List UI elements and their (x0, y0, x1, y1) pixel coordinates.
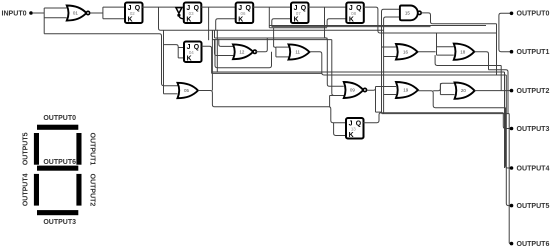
or-gate 18 (454, 44, 475, 60)
jk-flip-flop U06 (236, 3, 254, 24)
svg-text:20: 20 (461, 88, 467, 93)
svg-text:03: 03 (189, 11, 194, 16)
wire to OR18 input A (437, 46, 454, 48)
wire riser to OR05 input B (163, 30, 165, 94)
node OUTPUT0 terminal (510, 12, 514, 16)
jk-flip-flop U02 (125, 3, 143, 24)
wire OR19 input bracket (375, 87, 377, 113)
label 7seg OUTPUT5 (22, 132, 29, 165)
wire to NOR12 input A (219, 39, 234, 46)
wire OR05 input B stub (164, 93, 178, 95)
wire OR20 input bracket (433, 83, 454, 91)
label INPUT0 (2, 10, 27, 17)
wire to OR11 input A (276, 46, 289, 48)
wire mid channel bus A (212, 71, 505, 73)
wire FF02 Q to FF03 (142, 6, 184, 8)
label OUTPUT2 (517, 88, 550, 95)
wire branch at OR18 lower (435, 55, 501, 65)
svg-text:01: 01 (73, 11, 79, 16)
wire OR20 bracket vertical (439, 83, 441, 94)
svg-text:OUTPUT6: OUTPUT6 (517, 241, 550, 248)
svg-text:OUTPUT0: OUTPUT0 (43, 115, 76, 122)
svg-text:K: K (186, 16, 191, 23)
svg-text:OUTPUT6: OUTPUT6 (43, 159, 76, 166)
wire FF08 Q down to channel (364, 7, 497, 33)
wire to OR19 input A (376, 86, 397, 88)
node OUTPUT2 terminal (510, 89, 514, 93)
wire FF04 Q to riser (202, 46, 212, 73)
svg-text:12: 12 (239, 49, 245, 54)
7-segment upper-left bar (OUTPUT5) (34, 133, 39, 165)
svg-text:06: 06 (241, 11, 246, 16)
svg-text:OUTPUT5: OUTPUT5 (517, 203, 550, 210)
wire OR18 output down (475, 52, 489, 70)
wire FF06 Q riser (268, 7, 270, 28)
wire channel bus D (215, 37, 328, 39)
svg-text:OUTPUT3: OUTPUT3 (517, 126, 550, 133)
wire OR05 output long route to FF13 J (198, 91, 346, 123)
7-segment lower-left bar (OUTPUT4) (34, 174, 39, 206)
wire OUTPUT4 riser b (504, 72, 506, 168)
svg-text:09: 09 (350, 88, 356, 93)
svg-text:K: K (294, 16, 299, 23)
wire channel riser a (214, 30, 216, 38)
wire FF03 Q riser (208, 7, 210, 40)
svg-text:07: 07 (296, 11, 301, 16)
wire OUTPUT0 riser and stub (499, 13, 512, 51)
wire OUTPUT5 riser (506, 75, 511, 206)
svg-text:15: 15 (405, 11, 411, 16)
wire jog to riser (489, 70, 509, 114)
svg-text:OUTPUT2: OUTPUT2 (89, 174, 96, 207)
clock edge symbol at FF03 (176, 8, 184, 19)
wire to FF04 K (178, 57, 184, 59)
or-gate 20 (455, 83, 475, 99)
label 7seg OUTPUT0 (43, 115, 76, 122)
7-segment middle bar (OUTPUT6) (37, 166, 78, 171)
wire FF02 Q riser to channel (159, 7, 384, 30)
jk-flip-flop U04 (184, 42, 202, 63)
wire FF13 K bracket (334, 123, 346, 136)
svg-text:Q: Q (246, 5, 252, 12)
label 7seg OUTPUT2 (89, 174, 96, 207)
svg-text:16: 16 (403, 49, 409, 54)
wire to FF02 K (103, 18, 125, 20)
or-gate 05 (178, 83, 199, 98)
wire channel to FF07 K (272, 19, 291, 27)
jk-flip-flop U07 (291, 3, 309, 24)
wire channel to FF06 K (216, 19, 236, 31)
wire FF03 Q to FF06 (201, 6, 236, 8)
svg-text:Q: Q (194, 44, 200, 51)
wire to NOR01 input A (44, 7, 66, 9)
svg-text:OUTPUT1: OUTPUT1 (517, 49, 550, 56)
wire channel riser c (216, 30, 218, 72)
label OUTPUT3 (517, 126, 550, 133)
wire OR11 input bracket (274, 28, 276, 57)
wire channel riser long (211, 30, 213, 90)
svg-text:K: K (238, 16, 243, 23)
svg-text:OUTPUT0: OUTPUT0 (517, 11, 550, 18)
wire channel bus A (269, 25, 486, 27)
wire OR05 route riser to NOR09 (329, 96, 331, 107)
svg-text:Q: Q (194, 5, 200, 12)
svg-text:05: 05 (184, 88, 190, 93)
wire to FF04 J (178, 47, 184, 49)
svg-text:18: 18 (460, 49, 466, 54)
wire to FF02 J (103, 6, 125, 8)
node OUTPUT3 terminal (510, 127, 514, 131)
wire NOR09 input B stub (330, 95, 344, 97)
nor-gate 01 (67, 6, 90, 21)
svg-text:OUTPUT4: OUTPUT4 (22, 173, 29, 206)
wire mid channel bus C (382, 113, 509, 115)
nor-gate 09 (344, 82, 367, 98)
wire to OR20 input B (440, 94, 454, 96)
svg-text:Q: Q (301, 5, 307, 12)
wire to OR16 input B (384, 56, 396, 58)
label OUTPUT1 (517, 49, 550, 56)
wire riser at OUTPUT2 (500, 66, 502, 91)
svg-text:K: K (349, 16, 354, 23)
svg-text:Q: Q (356, 121, 362, 128)
jk-flip-flop U13 (346, 118, 364, 139)
wire riser to NOR09 input B (332, 40, 344, 96)
svg-text:K: K (128, 16, 133, 23)
wire riser to NAND15 input B (384, 17, 400, 114)
node OUTPUT5 terminal (510, 204, 514, 208)
jk-flip-flop U08 (346, 3, 364, 24)
svg-text:08: 08 (351, 11, 356, 16)
wire bracket bottom stub (376, 111, 382, 113)
label 7seg OUTPUT1 (89, 133, 96, 166)
wire OR19 output route to OUTPUT4 riser (418, 91, 505, 108)
svg-text:K: K (349, 132, 354, 139)
wire OUTPUT3 riser (503, 113, 511, 129)
wire channel bus B (272, 26, 431, 28)
svg-text:11: 11 (295, 50, 300, 55)
wire OR20 output to OUTPUT2 (475, 90, 512, 92)
svg-text:OUTPUT4: OUTPUT4 (517, 165, 550, 172)
svg-text:Q: Q (135, 5, 141, 12)
wire OR11 output down to channel (310, 52, 507, 75)
wire to NOR12 input B (215, 39, 234, 56)
wire mid channel bus B (212, 72, 322, 74)
wire FF07 Q riser to NOR09 input A (325, 7, 344, 86)
wire output riser r1 (496, 24, 498, 75)
svg-text:04: 04 (189, 50, 194, 55)
wire channel riser b (212, 30, 214, 39)
wire riser to NAND15 input A (382, 9, 400, 113)
wire channel bus E (213, 39, 332, 41)
label 7seg OUTPUT3 (43, 219, 76, 226)
or-gate 19 (396, 82, 418, 98)
wire channel to FF08 K (327, 19, 346, 27)
wire to OR11 input B (276, 56, 289, 58)
wire feedback from junction to OR05 input A (44, 34, 177, 86)
wire branch to FF04 inputs (164, 45, 179, 58)
svg-text:02: 02 (130, 11, 135, 16)
svg-text:INPUT0: INPUT0 (2, 10, 27, 17)
wire FF13 Q up to OUTPUT3 riser (363, 113, 503, 123)
7-segment top bar (OUTPUT0) (37, 125, 78, 130)
wire FF06 Q to FF07 (253, 6, 291, 8)
nand-gate 15 (400, 6, 421, 21)
label OUTPUT6 (517, 241, 550, 248)
wire OR18 input bracket (436, 33, 438, 55)
svg-text:K: K (187, 55, 192, 62)
svg-text:OUTPUT1: OUTPUT1 (89, 133, 96, 166)
wire NOR01 output to FF02 bracket (90, 12, 103, 14)
wire channel bus C (269, 27, 327, 29)
node OUTPUT4 terminal (510, 166, 514, 170)
wire OUTPUT4 riser (506, 108, 512, 168)
wire NAND15 output to OUTPUT0 riser (421, 13, 496, 24)
wire loop below NOR12 (215, 39, 272, 68)
svg-text:13: 13 (351, 127, 356, 132)
or-gate 16 (396, 44, 418, 60)
wire NOR09 output to OR19 bracket (367, 87, 375, 91)
wire to OR19 input B (384, 94, 396, 96)
wire INPUT0 to junction (33, 12, 44, 14)
wire FF02 input bracket (102, 7, 104, 19)
label 7seg OUTPUT4 (22, 173, 29, 206)
wire FF07 Q to FF08 (308, 6, 346, 8)
label OUTPUT5 (517, 203, 550, 210)
svg-text:OUTPUT3: OUTPUT3 (43, 219, 76, 226)
wire to OR16 input A (382, 46, 397, 48)
svg-text:19: 19 (403, 88, 409, 93)
node OUTPUT6 terminal (510, 242, 514, 246)
7-segment upper-right bar (OUTPUT1) (76, 133, 81, 165)
svg-text:OUTPUT5: OUTPUT5 (22, 132, 29, 165)
jk-flip-flop U03 (184, 3, 202, 24)
7-segment bottom bar (OUTPUT3) (37, 210, 78, 215)
svg-text:OUTPUT2: OUTPUT2 (517, 88, 550, 95)
wire NOR12 output riser (255, 38, 267, 52)
nor-gate 12 (233, 44, 257, 59)
label 7seg OUTPUT6 (43, 159, 76, 166)
svg-text:Q: Q (356, 5, 362, 12)
or-gate 11 (289, 44, 310, 59)
wire OUTPUT6 riser (509, 114, 511, 244)
label OUTPUT0 (517, 11, 550, 18)
node INPUT0 terminal (29, 11, 33, 15)
wire OR16 output to OR18 bracket (418, 51, 436, 53)
wire to OR18 input B (437, 54, 454, 56)
wire junction vertical at x44 (43, 8, 45, 34)
label OUTPUT4 (517, 165, 550, 172)
7-segment lower-right bar (OUTPUT2) (76, 174, 81, 206)
node OUTPUT1 terminal (510, 50, 514, 54)
wire to NOR01 input B (44, 17, 66, 19)
